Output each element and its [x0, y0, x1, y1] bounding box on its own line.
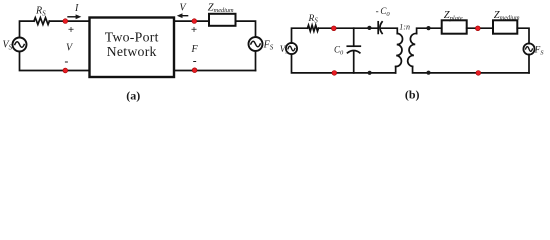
svg-text:+: + [191, 24, 197, 36]
svg-text:-: - [193, 56, 197, 68]
svg-text:F: F [191, 44, 199, 55]
svg-text:+: + [68, 24, 74, 36]
svg-text:Two-Port: Two-Port [105, 30, 159, 45]
svg-text:I: I [74, 3, 79, 14]
svg-text:Network: Network [107, 44, 157, 59]
svg-text:-: - [64, 56, 68, 68]
svg-text:(a): (a) [126, 89, 140, 103]
svg-text:1:n: 1:n [399, 22, 410, 31]
svg-text:(b): (b) [405, 88, 420, 102]
